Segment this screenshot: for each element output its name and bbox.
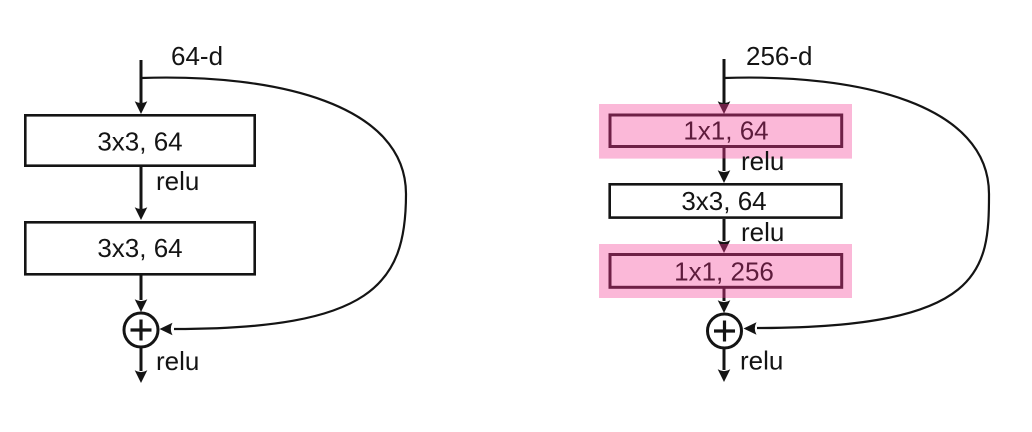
arrowhead into adder left — [135, 299, 148, 312]
svg-text:3x3, 64: 3x3, 64 — [97, 127, 182, 157]
arrowhead output left — [135, 370, 148, 383]
skip connection curve right — [724, 78, 989, 328]
wire: input stem left — [140, 60, 143, 103]
skip connection curve left — [141, 78, 406, 329]
wire: box2 to adder left — [140, 275, 143, 300]
svg-text:3x3, 64: 3x3, 64 — [681, 186, 766, 216]
wire: adder output right — [723, 349, 726, 371]
wire: box1 to box2 left — [140, 166, 143, 209]
wire: box1 to white box right (maroon inside band) — [723, 147, 726, 159]
arrowhead into white box — [718, 170, 731, 183]
plus sign left — [131, 320, 152, 341]
svg-text:1x1, 256: 1x1, 256 — [674, 257, 774, 287]
wire: white box to box2 right — [723, 219, 726, 241]
arrowhead into box1 right (black part above band) — [718, 101, 731, 114]
svg-text:3x3, 64: 3x3, 64 — [97, 233, 182, 263]
wire: box2 to adder right (maroon inside band) — [723, 288, 726, 298]
highlight band 1 (pink) — [599, 104, 852, 159]
conv box 3x3,64 right — [610, 184, 842, 217]
wire: box1 to white box right (black below band) — [723, 158, 726, 171]
svg-text:relu: relu — [156, 166, 199, 196]
svg-text:64-d: 64-d — [171, 41, 223, 71]
wire: input stem right — [723, 59, 726, 103]
adder circle left — [124, 313, 158, 347]
plus sign right — [714, 321, 735, 342]
arrowhead of skip into adder right — [744, 322, 757, 335]
arrowhead into box2 left — [135, 207, 148, 220]
arrowhead into box1 right (maroon part inside band) — [718, 101, 731, 114]
svg-text:relu: relu — [741, 146, 784, 176]
arrowhead into box1 left — [135, 101, 148, 114]
svg-text:relu: relu — [740, 346, 783, 376]
svg-text:relu: relu — [741, 217, 784, 247]
arrowhead into adder right — [718, 300, 731, 313]
arrowhead into box2 right (maroon part inside band) — [718, 240, 731, 253]
svg-text:256-d: 256-d — [746, 41, 813, 71]
arrowhead into box2 right (black part above band) — [718, 240, 731, 253]
wire: box2 to adder right (black below band) — [723, 298, 726, 301]
bottleneck box 1x1,256 — [610, 255, 842, 288]
conv layer box 3x3,64 (bottom, left diagram) — [25, 222, 254, 274]
highlight band 2 (pink) — [599, 244, 852, 298]
bottleneck box 1x1,64 — [610, 115, 842, 147]
conv layer box 3x3,64 (top, left diagram) — [25, 115, 254, 165]
svg-text:relu: relu — [156, 346, 199, 376]
arrowhead of skip into adder left — [160, 323, 173, 336]
wire: adder output left — [140, 348, 143, 372]
adder circle right — [708, 314, 742, 348]
svg-text:1x1, 64: 1x1, 64 — [683, 116, 768, 146]
arrowhead output right — [718, 369, 731, 382]
